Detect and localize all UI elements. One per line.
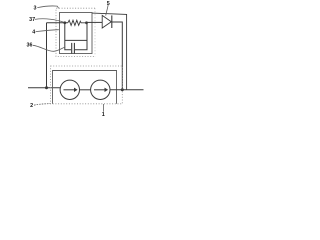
current source I1 (circle) xyxy=(60,80,79,99)
diode cathode bar xyxy=(111,15,113,28)
dashed box 3 (upper network enclosure) xyxy=(56,8,95,56)
node junction dot (output tee) xyxy=(121,88,124,91)
node B dot xyxy=(85,21,88,24)
leader line for 1 xyxy=(103,104,105,112)
svg-text:1: 1 xyxy=(102,112,105,118)
leader line for 3 xyxy=(37,6,58,8)
wire (diode out, corner down) xyxy=(112,22,123,90)
node junction dot (input tee) xyxy=(45,86,48,89)
wire between circles xyxy=(80,89,91,91)
diode 5 (triangle) xyxy=(102,15,111,28)
arrow I1 xyxy=(64,89,75,91)
wire (cap loop left leg) xyxy=(65,23,71,50)
wire (input riser x=46.5) xyxy=(46,23,48,88)
leader line for 4 xyxy=(36,30,59,32)
solid box (current source block) xyxy=(53,71,117,104)
svg-text:2: 2 xyxy=(30,103,33,109)
wire (bypass from box corner over the top and down right side) xyxy=(92,13,127,90)
svg-text:3: 3 xyxy=(34,5,37,11)
svg-text:37: 37 xyxy=(29,17,35,23)
wire (cap loop right leg) xyxy=(75,23,87,50)
wire (main horizontal into box) xyxy=(47,22,68,24)
wire (node B to diode) xyxy=(87,21,103,23)
svg-text:5: 5 xyxy=(107,1,110,7)
dashed box 2 (lower enclosure) xyxy=(51,66,123,104)
wire (output to right edge) xyxy=(110,89,144,91)
resistor 37 (zigzag) xyxy=(68,20,87,25)
leader line for 36 xyxy=(33,45,65,51)
svg-text:4: 4 xyxy=(32,30,35,36)
arrow I2 xyxy=(94,89,105,91)
node A dot xyxy=(63,21,66,24)
leader line for 5 xyxy=(106,5,109,16)
svg-text:36: 36 xyxy=(27,43,33,49)
wire (cap box top) xyxy=(65,39,87,41)
leader line for 37 xyxy=(35,19,64,22)
current source I2 (circle) xyxy=(91,80,110,99)
leader line for 2 xyxy=(34,103,50,105)
wire (input horizontal, bottom left) xyxy=(28,87,61,89)
capacitor 36 plates xyxy=(72,43,75,54)
solid box 4 (inner element enclosure) xyxy=(60,13,93,54)
